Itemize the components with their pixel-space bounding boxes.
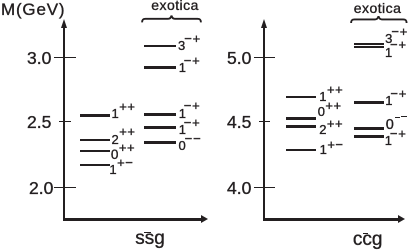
ccg label 2++ (319, 123, 343, 136)
right x-axis (263, 218, 398, 221)
ccg level 1+- line (286, 149, 316, 152)
tick 5.0 (254, 57, 275, 58)
ccg level 0++ line (286, 117, 316, 120)
exotica label right (354, 1, 402, 15)
ccg exotic level 1-+ mid line (354, 101, 384, 104)
ccg exotic label 0-- minus bar 1 (395, 117, 400, 119)
ssg exotic label 3-+ (178, 39, 201, 52)
left y-axis arrowhead (61, 19, 67, 28)
tick 2.5 (59, 121, 71, 122)
ccg label 1++ (319, 90, 343, 103)
ccg exotic label 0-- (386, 118, 394, 133)
ccg exotic level 0-- line (354, 127, 384, 130)
ssg exotic label 1-+ upper (179, 61, 201, 74)
ssg exotic level 3-+ line (144, 45, 176, 48)
ccg exotic label 1-+ mid (385, 94, 407, 107)
ssg exotic label 1-+ a (179, 107, 201, 120)
ccg level 1++ line (286, 96, 316, 99)
tick label 2.0 (29, 180, 53, 198)
ccg exotic doublet line upper (354, 43, 384, 45)
ccg exotic label 1-+ low (385, 134, 407, 147)
right y-axis arrowhead (261, 19, 267, 28)
ssg exotic label 1-+ b (179, 123, 201, 136)
ssg level 2++ line (80, 139, 110, 142)
tick 4.0 (254, 187, 275, 188)
ccg exotic doublet line lower (354, 46, 384, 48)
tick label 4.5 (227, 114, 251, 132)
tick label 4.0 (227, 180, 251, 198)
ccg label 0++ (318, 105, 342, 118)
tick 3.0 (54, 57, 76, 58)
left y-axis (63, 26, 65, 221)
axis label M(GeV) (1, 1, 65, 18)
ssg level 1++ line (80, 114, 110, 117)
ssg exotic label 0-- (178, 139, 201, 152)
ssg exotic level 1-+ a line (144, 113, 176, 116)
ssg label 1++ (112, 107, 136, 120)
tick label 2.5 (27, 114, 51, 132)
ssg level 1+- line (80, 164, 110, 167)
ssg label 1+- (109, 163, 133, 176)
ssg label 2++ (112, 133, 136, 146)
ccg exotic label 0-- minus bar 2 (401, 116, 407, 118)
right y-axis (263, 26, 265, 221)
ccg overbar (363, 233, 369, 235)
ssg label 0++ (111, 148, 135, 162)
ssg exotic level 0-- line (144, 141, 176, 144)
ccg exotic label 1-+ doublet (385, 46, 407, 59)
ccg exotic label 3-+ (385, 32, 408, 45)
tick 4.5 (259, 121, 270, 122)
ssg exotic level 1-+ upper line (144, 66, 176, 69)
left x-axis (63, 218, 200, 221)
left x-axis arrowhead (201, 215, 208, 223)
ccg label 1+- (320, 143, 344, 156)
right x-axis arrowhead (398, 215, 405, 223)
ssg overbar (144, 232, 150, 234)
tick 2.0 (54, 187, 76, 188)
ccg level 2++ line (286, 125, 316, 128)
ssg axis label (135, 229, 165, 248)
exotica label left (151, 0, 199, 12)
ssg exotic level 1-+ b line (144, 126, 176, 129)
tick label 5.0 (227, 50, 251, 68)
tick label 3.0 (27, 50, 51, 68)
ccg axis label (353, 230, 383, 249)
ssg level 0++ line (80, 150, 110, 153)
ccg exotic level 1-+ low line (354, 135, 384, 138)
